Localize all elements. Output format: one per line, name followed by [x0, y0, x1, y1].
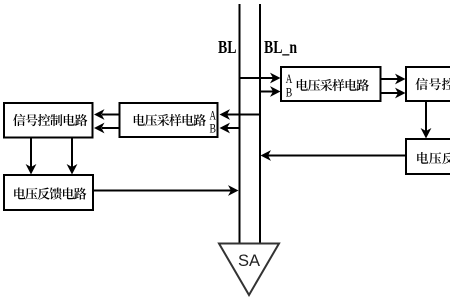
wire+arrow: U5 down to U6	[421, 101, 432, 139]
wire+arrow: BL to U2 pin B	[220, 123, 240, 134]
sense amplifier SA (triangle)	[219, 244, 279, 296]
svg-text:SA: SA	[238, 252, 260, 270]
box U3: voltage feedback circuit (left) 电压反馈电路	[4, 175, 93, 210]
wire+arrow: U4 to U5 lower	[382, 88, 406, 99]
wire: bit line BL (vertical)	[239, 4, 241, 243]
box U2: voltage sampling circuit (left) 电压采样电路, pins A B	[120, 103, 218, 137]
box U6: voltage feedback circuit (right, clipped) 电压反馈电路	[406, 139, 450, 174]
svg-text:A: A	[210, 108, 217, 122]
wire+arrow: U6 to BL_n	[261, 150, 406, 161]
box U1: signal control circuit (left) 信号控制电路	[4, 103, 93, 138]
wire: bit line BL_n (vertical)	[259, 4, 261, 243]
svg-text:BL_n: BL_n	[264, 37, 297, 57]
box U5: signal control circuit (right, clipped) 信号控制电路	[406, 67, 450, 101]
svg-text:B: B	[210, 121, 217, 135]
wire+arrow: BL_n to U4 pin B	[260, 86, 281, 97]
wire+arrow: U4 to U5 upper	[382, 74, 406, 85]
wire+arrow: U1 down to U3 left	[26, 139, 37, 175]
wire+arrow: U2 to U1 lower	[94, 123, 119, 134]
wire+arrow: BL_n to U2 pin A	[220, 109, 261, 120]
wire+arrow: U1 down to U3 right	[67, 139, 78, 175]
svg-text:B: B	[286, 86, 293, 100]
svg-text:A: A	[286, 72, 293, 86]
svg-text:BL: BL	[218, 37, 237, 57]
wire+arrow: U3 to BL	[93, 185, 239, 196]
box U4: voltage sampling circuit (right) 电压采样电路, pins A B	[281, 67, 381, 101]
wire+arrow: U2 to U1 upper	[94, 109, 119, 120]
wire+arrow: BL to U4 pin A	[240, 73, 281, 84]
